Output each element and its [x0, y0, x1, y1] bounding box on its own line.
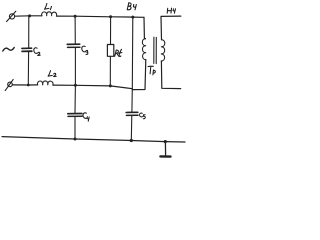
terminal bottom input — [5, 79, 13, 90]
wire NCh bottom lead — [161, 61, 180, 89]
label L1 — [45, 4, 52, 10]
AC source — [3, 48, 14, 52]
capacitor C5 — [126, 17, 138, 140]
wire top rail left — [15, 15, 42, 17]
label RL — [115, 49, 122, 56]
transformer Tp secondary winding — [161, 40, 165, 61]
label VCh — [127, 3, 136, 10]
capacitor C2 — [22, 16, 32, 85]
node B (C3 top) — [74, 15, 77, 18]
label L2 — [48, 71, 56, 77]
node C (RL top) — [109, 15, 112, 18]
label C4 — [83, 113, 89, 121]
wire bottom rail — [2, 137, 185, 142]
node G (RL bottom junction) — [109, 84, 112, 87]
wire top rail after L1 — [57, 16, 145, 17]
node I (C5 ground junction) — [130, 139, 133, 142]
node H (C4 ground junction) — [74, 138, 77, 141]
transformer Tp core — [154, 37, 157, 63]
wire lower row right — [53, 85, 132, 89]
capacitor C4 — [68, 85, 82, 139]
wire lower row left — [12, 84, 37, 86]
ground — [160, 142, 170, 157]
label Tp — [148, 66, 155, 75]
transformer Tp primary lead bottom — [132, 60, 146, 90]
node J (ground junction) — [164, 140, 167, 143]
inductor L1 — [42, 12, 57, 16]
node D (C5 top) — [131, 16, 134, 19]
wire NCh top lead — [161, 16, 181, 40]
node F (C3/C4 junction) — [74, 84, 77, 87]
capacitor C3 — [67, 16, 80, 85]
node A (C2 top) — [28, 14, 31, 17]
label C5 — [139, 113, 145, 119]
label NCh — [167, 8, 175, 13]
resistor RL — [107, 17, 113, 86]
label C3 — [82, 46, 88, 54]
label C2 — [34, 48, 40, 56]
transformer Tp primary winding — [142, 39, 145, 60]
node E (C2 bottom junction) — [27, 84, 30, 87]
terminal top input — [7, 11, 16, 21]
inductor L2 — [37, 81, 53, 85]
transformer Tp primary lead top — [144, 17, 146, 38]
